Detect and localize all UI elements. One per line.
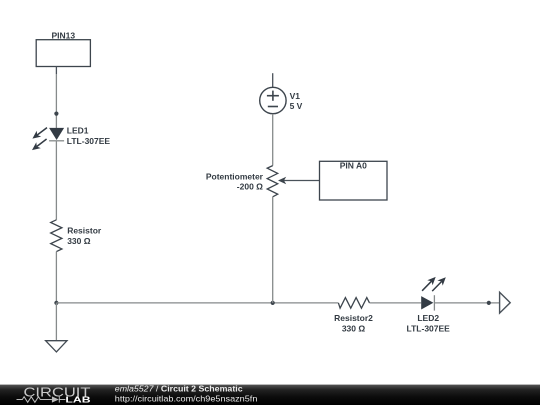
digital pin box PIN13 [36, 40, 90, 67]
svg-text:http://circuitlab.com/ch9e5nsa: http://circuitlab.com/ch9e5nsazn5fn [115, 393, 258, 403]
svg-text:Resistor: Resistor [67, 225, 102, 235]
svg-text:LTL-307EE: LTL-307EE [67, 136, 111, 146]
wire PIN13 to LED1 anode [55, 74, 57, 128]
svg-text:Resistor2: Resistor2 [334, 313, 373, 323]
LED2 cathode bar [433, 295, 435, 310]
wire LED1 cathode to Resistor [55, 141, 57, 220]
LED2 emission arrow right [432, 277, 446, 291]
wire ground stub [55, 303, 57, 341]
LED1 emission arrow upper [32, 128, 47, 139]
wire LED2 to output flag [434, 302, 503, 304]
svg-text:LAB: LAB [65, 395, 90, 405]
resistor Resistor (330 ohm) zigzag [51, 220, 62, 252]
wire wiper to PIN A0 [284, 180, 320, 182]
resistor Resistor2 (330 ohm) zigzag [338, 298, 369, 309]
V1 plus sign [267, 91, 279, 101]
svg-text:LED1: LED1 [67, 126, 89, 136]
wire V1 bottom to Potentiometer [272, 114, 274, 166]
svg-text:Potentiometer: Potentiometer [206, 172, 264, 182]
svg-text:V1: V1 [290, 91, 301, 101]
LED2 emission arrow left [422, 277, 436, 291]
wire PIN13 terminal stub [55, 67, 57, 75]
LED1 triangle (anode) [49, 128, 64, 140]
LED2 triangle (anode) [421, 296, 433, 309]
svg-text:PIN13: PIN13 [51, 30, 75, 40]
V1 minus sign [268, 106, 278, 108]
svg-text:emla5527 / Circuit 2 Schematic: emla5527 / Circuit 2 Schematic [115, 383, 243, 393]
LED1 cathode bar [49, 140, 64, 142]
potentiometer zigzag [267, 166, 278, 197]
logo resistor squiggle [17, 397, 52, 403]
output flag triangle [500, 292, 511, 313]
wire bottom rail left segment [56, 302, 338, 304]
wire Potentiometer bottom to rail [272, 197, 274, 303]
analog pin box PIN A0 [320, 161, 388, 200]
voltage source V1 circle [260, 87, 286, 113]
potentiometer wiper arrowhead [278, 177, 286, 184]
svg-text:330 Ω: 330 Ω [67, 236, 91, 246]
node junction dot at rail left [54, 301, 58, 305]
svg-text:PIN A0: PIN A0 [340, 161, 367, 171]
logo diode symbol [52, 396, 59, 402]
node junction dot before flag [487, 301, 491, 305]
svg-text:LTL-307EE: LTL-307EE [407, 323, 451, 333]
svg-text:LED2: LED2 [417, 313, 439, 323]
LED1 emission arrow lower [32, 139, 47, 150]
svg-text:330 Ω: 330 Ω [342, 323, 366, 333]
svg-text:-200 Ω: -200 Ω [237, 182, 263, 192]
ground symbol [46, 341, 67, 352]
wire Resistor to bottom rail [55, 252, 57, 303]
node junction dot middle rail [271, 301, 275, 305]
voltage source V1 stub top [272, 73, 274, 87]
svg-text:5 V: 5 V [290, 101, 303, 111]
node junction dot on PIN13-LED1 wire [54, 112, 58, 116]
wire Resistor2 to LED2 [370, 302, 422, 304]
footer watermark bar [0, 385, 540, 405]
